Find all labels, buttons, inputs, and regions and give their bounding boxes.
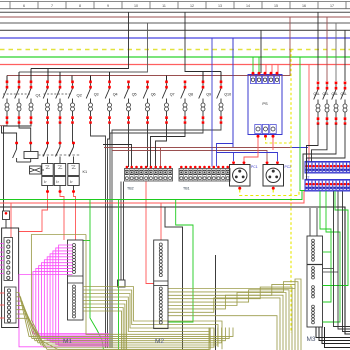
circuit breaker Q10	[217, 81, 231, 124]
label M1	[63, 338, 72, 345]
wire K1 out3 (red)	[74, 193, 76, 240]
wire green X2-M3 c	[323, 191, 349, 286]
circuit breaker Q4L	[341, 82, 348, 125]
svg-text:Q2: Q2	[77, 93, 83, 98]
wire Q1 pole2 out	[19, 124, 31, 143]
svg-text:Q10: Q10	[224, 93, 231, 97]
wire gray M3 tap1	[323, 268, 334, 270]
wire rail drop	[71, 76, 73, 81]
wire green M2 side	[168, 200, 193, 323]
svg-text:12: 12	[190, 4, 194, 8]
svg-text:14: 14	[246, 4, 250, 8]
wire Q2 pole1 out	[47, 124, 49, 143]
riser to Q3L (gray)	[335, 23, 337, 81]
wire black M2 side	[165, 207, 183, 350]
circuit breaker Q7	[162, 81, 174, 124]
svg-text:Q3: Q3	[94, 93, 99, 97]
olive harness band to M3	[168, 279, 301, 350]
wire mid black	[0, 207, 350, 334]
wire red X1 drop	[308, 65, 310, 163]
wire PC2 PE (yellow dashed)	[272, 190, 274, 196]
svg-text:Q7: Q7	[170, 93, 175, 97]
wire M3 out1	[316, 327, 350, 338]
wire M3 feed2 (black)	[316, 208, 318, 236]
riser to Q4L (black)	[344, 30, 346, 81]
bus L3 (gray)	[0, 22, 350, 24]
wire Q1 pole3 out	[4, 124, 32, 211]
circuit breaker Q1 (3-pole)	[3, 81, 42, 124]
wire Q3L out	[303, 124, 336, 180]
wire N drop (black)	[260, 30, 262, 73]
circuit breaker Q2L	[323, 82, 330, 125]
wire Q2L out	[312, 124, 328, 162]
svg-text:Q1L: Q1L	[314, 92, 320, 96]
phase rail A (black)	[31, 12, 129, 68]
circuit breaker Q8	[181, 81, 193, 124]
svg-text:Q9: Q9	[206, 93, 211, 97]
wire green M1 drop	[90, 200, 104, 350]
wire Q4 out	[108, 124, 110, 348]
wire gray M3 tap2	[323, 271, 339, 273]
svg-text:16: 16	[302, 4, 306, 8]
wire blue PC1 drop	[233, 153, 235, 162]
terminal strip M1-B	[5, 287, 17, 323]
wire red M1 drop	[10, 203, 12, 238]
connector housing M1 left	[2, 228, 19, 328]
wire green X2 drop	[300, 57, 305, 191]
wire M3 out4	[325, 327, 350, 348]
wire K1 out1 (red)	[19, 193, 48, 232]
wire Q9 out	[110, 124, 203, 348]
bus L1 (black)	[0, 11, 350, 13]
wire M3 out2	[319, 327, 350, 341]
bus 24V (blue)	[0, 37, 350, 39]
connector left	[3, 211, 10, 228]
svg-text:8: 8	[79, 4, 81, 8]
wire TB2 drop0 (black)	[120, 182, 122, 281]
wire Q2 pole3 out	[72, 124, 74, 143]
wire ctrl (dark red) 2	[104, 147, 290, 149]
riser blue ctrl	[233, 38, 308, 148]
wire PS red feed 3	[277, 65, 279, 74]
wire TB2 drop3 (red)	[146, 182, 154, 284]
svg-text:17: 17	[330, 4, 334, 8]
bus L2 (dark red)	[0, 16, 350, 18]
terminal strip TB1	[179, 166, 230, 191]
svg-text:PC2: PC2	[285, 165, 292, 169]
wire ctrl blue to PC2	[217, 144, 278, 162]
label M3	[307, 336, 316, 343]
svg-text:Q5: Q5	[132, 93, 137, 97]
bus N (black)	[0, 29, 350, 31]
bus earth (green)	[0, 56, 350, 58]
svg-text:Q8: Q8	[188, 93, 193, 97]
terminal strip X1	[305, 158, 350, 174]
wire red M2 top feed	[160, 203, 162, 240]
wire rail drop	[166, 76, 168, 81]
svg-text:Q3L: Q3L	[332, 92, 338, 96]
circuit breaker Q5	[124, 81, 136, 124]
svg-text:PS: PS	[262, 101, 268, 106]
terminal strip M1-A	[4, 238, 13, 281]
svg-text:I>: I>	[44, 180, 47, 184]
wire ctrl (black)	[103, 145, 132, 168]
wire Q5 out	[128, 124, 130, 167]
label M2	[155, 338, 164, 345]
svg-text:10: 10	[134, 4, 138, 8]
wire PS PE (yellow dashed)	[266, 138, 292, 144]
wire ctrl (black) 2	[151, 124, 186, 167]
drawing border ruler	[0, 2, 350, 9]
wire green M2 drop	[118, 200, 120, 350]
circuit breaker Q9	[199, 81, 211, 124]
wire ctrl (black) 3	[156, 124, 167, 167]
wire ctrl maroon TB drop	[160, 148, 162, 168]
wire M3 feed1 (black)	[309, 208, 311, 236]
wire green X2-M3 b	[323, 191, 341, 322]
circuit breaker Q4	[105, 81, 117, 124]
wire black M2 right	[215, 255, 217, 350]
wire K1 out2 (red)	[60, 193, 64, 240]
bus PE (yellow dashed)	[0, 49, 350, 51]
bus 230V (red)	[0, 64, 350, 66]
wire K1 aux feed	[2, 126, 17, 143]
wire rail drop	[30, 69, 32, 81]
wire PS out2 (red)	[272, 138, 274, 151]
wire mid green	[0, 191, 302, 200]
wire blue TB1 drop	[216, 153, 218, 167]
wire Q4L out	[307, 124, 346, 180]
wire Q10 out	[112, 124, 221, 348]
svg-text:Q4: Q4	[113, 93, 118, 97]
wire rail jog Q2	[47, 68, 49, 70]
circuit breaker Q2 (3-pole)	[43, 81, 82, 124]
wire rail drop	[220, 72, 222, 81]
svg-text:11: 11	[162, 4, 166, 8]
svg-text:Q6: Q6	[151, 93, 156, 97]
olive wire loop	[31, 235, 209, 350]
circuit breaker Q3	[86, 81, 98, 124]
wire PC1 PE (yellow dashed)	[240, 190, 299, 196]
circuit breaker Q6	[143, 81, 155, 124]
wire PS red feed 1	[265, 65, 267, 74]
wire green M3 tap1	[323, 251, 332, 253]
svg-text:K1: K1	[83, 170, 88, 174]
svg-text:PC1: PC1	[251, 165, 258, 169]
terminal strip M1 main	[68, 240, 84, 320]
svg-text:M1: M1	[63, 338, 72, 345]
circuit breaker Q3L	[332, 82, 339, 125]
riser to Q1L (black)	[317, 12, 319, 81]
wire green M1 tap	[83, 240, 90, 242]
socket PC1	[230, 161, 258, 190]
phase rail C (dark red)	[7, 17, 290, 76]
terminal strip M3	[307, 236, 323, 327]
svg-text:7: 7	[51, 4, 53, 8]
wire rail drop	[18, 72, 20, 81]
svg-text:Q4L: Q4L	[341, 92, 347, 96]
olive harness bottom band	[16, 293, 233, 350]
wire PS green feed 2	[258, 57, 260, 73]
svg-text:I>: I>	[56, 180, 59, 184]
svg-text:Q1: Q1	[36, 93, 42, 98]
wire rail drop	[6, 76, 8, 81]
wire right bundle c (black)	[343, 192, 350, 332]
wire rail drop	[202, 72, 204, 81]
terminal strip X2	[305, 176, 350, 192]
svg-text:M2: M2	[155, 338, 164, 345]
wire rail drop	[109, 72, 111, 81]
olive wire strip riser	[86, 235, 210, 335]
wire PS green feed 1	[252, 57, 254, 73]
wire rail drop	[47, 69, 49, 81]
wire green X2-M3 a	[320, 191, 331, 302]
wire M3 out3	[322, 327, 350, 344]
riser to Q2L (dark red)	[326, 17, 328, 81]
svg-text:I>: I>	[70, 180, 73, 184]
svg-text:6: 6	[23, 4, 25, 8]
red stub feeds M1-B	[0, 293, 5, 318]
wire Q6 out	[147, 124, 149, 167]
svg-text:TB2: TB2	[127, 187, 134, 191]
wire TB2 drop0b (black)	[123, 182, 125, 281]
phase rail B (gray)	[19, 23, 148, 72]
wire Q2 pole2 out	[59, 124, 61, 143]
svg-text:M3: M3	[307, 336, 316, 343]
wire blue TB1 drop 2	[211, 38, 213, 167]
terminal strip TB2	[125, 166, 173, 191]
phase rail D (black)	[185, 12, 221, 71]
wire PS red feed 2	[271, 65, 273, 74]
svg-text:9: 9	[107, 4, 109, 8]
svg-text:TB1: TB1	[183, 187, 190, 191]
connector small M2	[118, 280, 126, 287]
svg-text:13: 13	[218, 4, 222, 8]
PE riser (yellow dashed)	[290, 50, 292, 334]
wire right bundle a (black)	[334, 192, 350, 327]
terminal strip M2	[154, 240, 168, 329]
magenta stub feeds M1-A	[0, 244, 4, 274]
magenta harness M1	[19, 245, 109, 347]
wire Q1L out	[307, 124, 319, 162]
wire right bundle b (black)	[338, 192, 350, 330]
contactor K1 with overload	[13, 142, 88, 194]
wire mid red	[0, 191, 304, 203]
svg-text:15: 15	[274, 4, 278, 8]
circuit breaker Q1L	[314, 82, 321, 125]
wire Q3 out	[91, 124, 106, 348]
socket PC2	[263, 161, 291, 190]
power supply PS	[248, 72, 282, 138]
wire Q1 pole1 out (dark red)	[0, 124, 7, 126]
wire ctrl (dark red)	[112, 151, 267, 162]
wire PS out1 (red)	[244, 138, 258, 162]
svg-text:Q2L: Q2L	[323, 92, 329, 96]
olive harness M1 fan	[83, 287, 222, 350]
wire rail drop	[59, 72, 61, 81]
wire rail drop	[90, 76, 92, 81]
